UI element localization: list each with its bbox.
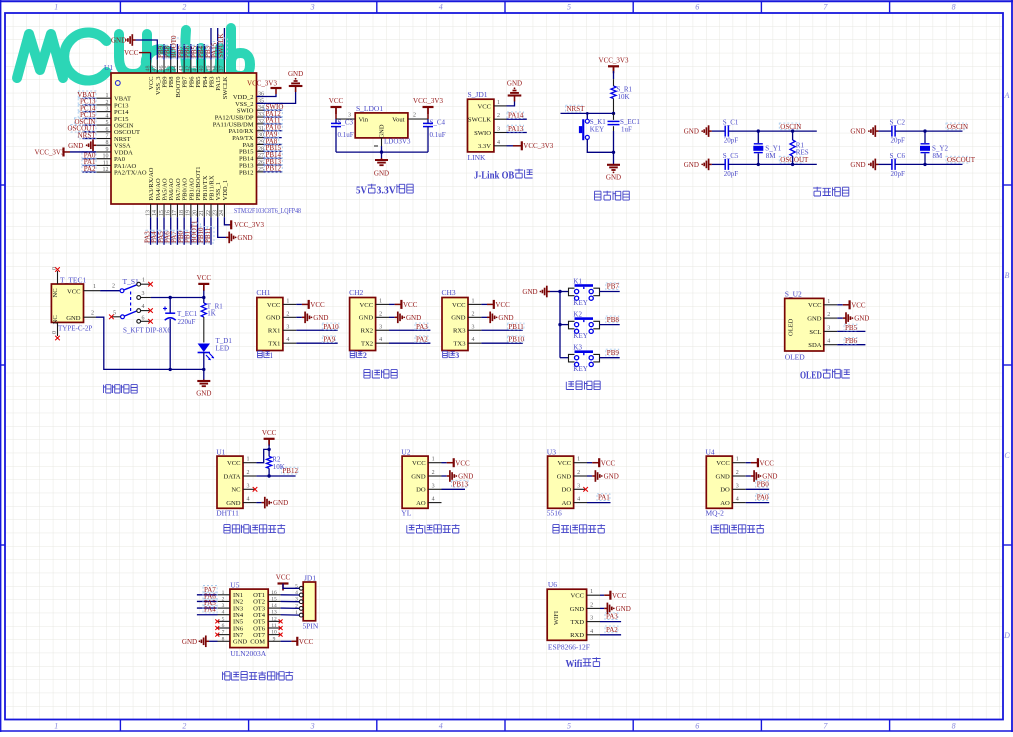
net label PA7 (203, 586, 217, 594)
svg-text:41: 41 (192, 66, 198, 72)
svg-text:2: 2 (182, 3, 186, 12)
resistor R2 10K pull-up (267, 456, 272, 468)
svg-text:48: 48 (145, 66, 151, 72)
junction (380, 150, 383, 153)
wire pin4 (507, 145, 514, 147)
svg-text:S_C5: S_C5 (723, 152, 739, 160)
ground (keys) (547, 291, 550, 293)
svg-text:GND: GND (379, 124, 386, 138)
svg-text:GND: GND (606, 174, 621, 182)
wire DHT11 VCC jog (256, 449, 269, 462)
svg-text:4: 4 (472, 337, 475, 343)
power port VCC (447, 462, 454, 464)
net label PA1 (597, 494, 610, 501)
net label PB7 (606, 283, 619, 290)
svg-text:GND: GND (684, 161, 699, 169)
svg-text:220uF: 220uF (178, 318, 196, 326)
svg-text:GND: GND (616, 605, 631, 613)
svg-text:5: 5 (567, 722, 571, 731)
net label PB9 (606, 349, 619, 356)
caption U1 (224, 525, 230, 534)
svg-text:GND: GND (359, 315, 374, 322)
switch throw 6 (no connect) (137, 319, 141, 323)
svg-text:VCC: VCC (267, 302, 281, 309)
regulator S_LDO1 body (355, 113, 408, 138)
wire VDD_1 to VCC_3V3 (224, 217, 229, 225)
net label PA10 (322, 323, 339, 330)
svg-text:3: 3 (590, 616, 593, 622)
svg-text:4: 4 (827, 339, 830, 345)
svg-text:3: 3 (247, 483, 250, 489)
wire pin2 (837, 317, 843, 319)
net label PA13 (507, 125, 524, 132)
svg-text:VCC_3V3: VCC_3V3 (35, 148, 65, 156)
switch pole 1 (120, 289, 124, 293)
junctions on bottom rail (169, 368, 172, 371)
svg-text:4: 4 (736, 497, 739, 503)
svg-text:1: 1 (577, 457, 580, 463)
wire PB0 (746, 488, 770, 490)
svg-text:K2: K2 (573, 310, 582, 318)
wire ground to rail (550, 291, 560, 293)
power port VCC (751, 462, 758, 464)
wire pin1 to switch (100, 290, 120, 292)
svg-text:PA1: PA1 (598, 494, 610, 502)
svg-text:SWCLK: SWCLK (222, 76, 229, 99)
svg-text:6: 6 (142, 316, 145, 322)
svg-text:5516: 5516 (547, 508, 562, 517)
svg-text:RES: RES (796, 149, 809, 157)
svg-text:GND: GND (406, 314, 421, 322)
svg-text:B: B (1005, 271, 1010, 280)
svg-text:4: 4 (142, 304, 145, 310)
svg-text:YL: YL (401, 508, 411, 517)
wire pin3 PA3 (600, 621, 621, 623)
net label PA5 (203, 599, 217, 607)
module U6 body ESP8266 (547, 589, 586, 640)
svg-text:14: 14 (271, 603, 277, 609)
svg-text:PB12: PB12 (266, 165, 282, 173)
wire pin1 (600, 594, 604, 596)
svg-text:19: 19 (186, 210, 192, 216)
svg-text:VDD_1: VDD_1 (222, 180, 229, 201)
power port VCC (OLED) (843, 304, 850, 306)
svg-text:TX3: TX3 (453, 341, 466, 348)
U1 body (111, 73, 257, 204)
svg-text:KEY: KEY (573, 332, 587, 340)
svg-text:GND: GND (854, 315, 869, 323)
svg-text:SCL: SCL (809, 329, 821, 336)
wire pin1 (389, 303, 395, 305)
wire (712, 130, 725, 132)
svg-text:VCC: VCC (299, 638, 314, 646)
wire key K1 output (600, 291, 620, 293)
svg-text:3: 3 (142, 291, 145, 297)
svg-text:PB9: PB9 (607, 349, 620, 357)
U6 pin stubs and numbers (587, 594, 600, 596)
svg-text:1: 1 (432, 457, 435, 463)
caption serial circuit (364, 370, 370, 379)
svg-text:VCC: VCC (310, 301, 325, 309)
svg-text:1: 1 (270, 351, 272, 360)
svg-text:PA13: PA13 (508, 125, 524, 133)
svg-text:Vin: Vin (359, 117, 369, 124)
svg-text:2: 2 (590, 602, 593, 608)
svg-text:GND: GND (451, 315, 466, 322)
connector CH2 body (350, 298, 376, 351)
svg-text:VCC: VCC (276, 574, 291, 582)
svg-text:K3: K3 (573, 344, 582, 352)
wire pin4 PA9 (296, 342, 337, 344)
U1 left net labels (78, 91, 96, 99)
caption U4 (711, 525, 719, 533)
wire PB13 (442, 488, 466, 490)
U1 bottom net labels (rotated) (146, 230, 154, 243)
svg-text:STM32F103C8T6_LQFP48: STM32F103C8T6_LQFP48 (234, 206, 301, 215)
wire pin2 to bottom rail (96, 317, 204, 369)
lead to LED (203, 317, 205, 343)
svg-text:1: 1 (93, 284, 96, 290)
svg-text:8: 8 (952, 3, 956, 12)
U4 pin stubs and numbers (732, 462, 745, 464)
U5 left pin stubs, numbers 1-8 (218, 594, 230, 596)
svg-text:S_KFT DIP-8X6: S_KFT DIP-8X6 (123, 327, 171, 335)
svg-text:33: 33 (258, 112, 264, 118)
power port VCC (487, 303, 494, 305)
ground (supply) (203, 380, 205, 382)
svg-text:4: 4 (439, 3, 443, 12)
svg-text:VCC: VCC (262, 429, 277, 437)
ground (wifi) (604, 607, 607, 609)
wires from U1 top pins (163, 44, 165, 60)
svg-text:OSCOUT: OSCOUT (780, 156, 809, 164)
switch throw 1 (no connect) (141, 283, 150, 285)
wire key K3 output (600, 357, 620, 359)
svg-text:15: 15 (271, 596, 277, 602)
wire VCC to JD1 pin5 (283, 584, 299, 589)
svg-text:3: 3 (310, 3, 315, 12)
svg-text:8M: 8M (766, 152, 777, 160)
wire VCC to Vin (335, 107, 337, 119)
wires from U1 bottom pins (150, 217, 152, 245)
connector JD1 body 5PIN (303, 582, 315, 621)
svg-text:2: 2 (472, 311, 475, 317)
S_LDO1 pin 2 (408, 118, 428, 120)
svg-text:14: 14 (152, 210, 158, 216)
net label PA3 (605, 613, 618, 620)
wire (613, 66, 615, 71)
wire key to ground rail (587, 139, 613, 152)
svg-text:4: 4 (379, 337, 382, 343)
svg-text:VCC: VCC (601, 459, 616, 467)
caption stepper motor (223, 672, 231, 680)
svg-text:OLED: OLED (788, 318, 795, 336)
svg-text:VCC: VCC (477, 103, 491, 110)
MCUclub logo (17, 28, 250, 81)
frame row ticks (0, 184, 5, 186)
svg-text:31: 31 (258, 126, 264, 132)
svg-text:39: 39 (206, 66, 212, 72)
svg-text:4: 4 (577, 497, 580, 503)
wire pin1 (481, 303, 487, 305)
S_LDO1 pin 3 (336, 118, 355, 120)
svg-text:3.3V: 3.3V (376, 185, 396, 197)
svg-text:GND: GND (374, 170, 389, 178)
wire (256, 502, 261, 504)
svg-text:5V: 5V (356, 185, 367, 197)
svg-text:VCC: VCC (570, 593, 584, 600)
svg-text:NRST: NRST (567, 105, 586, 113)
svg-text:38: 38 (213, 66, 219, 72)
svg-text:OLED: OLED (800, 370, 822, 382)
power port VCC (592, 462, 599, 464)
wire pin1 (837, 304, 843, 306)
svg-text:3: 3 (286, 324, 289, 330)
svg-text:GND: GND (850, 128, 865, 136)
svg-text:VCC: VCC (67, 288, 81, 295)
comment serial-2 (350, 351, 355, 358)
net label PA2 (415, 336, 428, 343)
svg-text:AO: AO (562, 500, 572, 507)
net label OSCIN (946, 123, 966, 130)
svg-text:PB11: PB11 (204, 227, 212, 243)
svg-text:PB8: PB8 (607, 316, 620, 324)
wire (746, 462, 751, 464)
wire pin1 (296, 303, 302, 305)
U1 bottom pin stubs (150, 204, 152, 217)
caption reset circuit (595, 191, 602, 200)
svg-text:DO: DO (562, 487, 572, 494)
svg-text:46: 46 (159, 66, 165, 72)
ground (447, 475, 450, 477)
svg-text:VCC: VCC (612, 592, 627, 600)
svg-text:43: 43 (179, 66, 185, 72)
svg-text:S_LDO1: S_LDO1 (356, 104, 383, 113)
svg-text:18: 18 (179, 210, 185, 216)
svg-text:T_TEC1: T_TEC1 (60, 276, 86, 285)
frame column ticks (119, 1, 121, 13)
svg-text:24: 24 (219, 210, 225, 216)
T_TEC1 top NC pin with no-connect (57, 271, 59, 284)
svg-text:VCC: VCC (403, 301, 418, 309)
svg-text:12: 12 (103, 167, 109, 173)
svg-text:PB10: PB10 (508, 336, 524, 344)
svg-text:PA10: PA10 (323, 323, 339, 331)
svg-text:1: 1 (142, 278, 145, 284)
svg-text:11: 11 (103, 160, 109, 166)
svg-text:1: 1 (827, 299, 830, 305)
wire VSS_2 to GND (257, 92, 296, 103)
wire pin3 PB5 (837, 330, 865, 332)
wire pin2 (389, 316, 395, 318)
svg-text:U6: U6 (548, 580, 557, 589)
wire pin3 PA13 (507, 132, 527, 134)
junction (612, 151, 615, 154)
net label PA2 (605, 626, 618, 633)
ground (crystal bottom) (875, 163, 878, 165)
wire (879, 130, 892, 132)
svg-text:20pF: 20pF (891, 170, 906, 178)
svg-text:7: 7 (222, 630, 225, 636)
svg-text:GND: GND (557, 473, 572, 480)
ground above J-Link (514, 96, 516, 102)
svg-text:4: 4 (247, 497, 250, 503)
junction (202, 296, 205, 299)
ground (487, 316, 490, 318)
svg-text:2: 2 (91, 311, 94, 317)
svg-text:3: 3 (827, 325, 830, 331)
svg-text:PB5: PB5 (845, 324, 858, 332)
svg-text:7: 7 (106, 134, 109, 140)
svg-text:PB12: PB12 (239, 169, 253, 176)
svg-text:9: 9 (106, 147, 109, 153)
LED T_D1 (198, 344, 210, 353)
svg-text:GND: GND (288, 70, 303, 78)
svg-text:13: 13 (271, 610, 277, 616)
caption key circuit (566, 382, 574, 390)
wire key K2 output (600, 324, 620, 326)
svg-text:SWCLK: SWCLK (468, 117, 491, 124)
svg-text:LINK: LINK (468, 153, 486, 162)
U1 right net labels (265, 103, 283, 111)
wire (587, 462, 592, 464)
svg-text:VCC: VCC (455, 459, 470, 467)
svg-text:U5: U5 (230, 580, 239, 589)
svg-text:1: 1 (590, 589, 593, 595)
svg-text:VCC: VCC (360, 302, 374, 309)
wires OT1-OT4 to JD1 (281, 594, 300, 596)
svg-text:2: 2 (247, 470, 250, 476)
svg-text:6: 6 (222, 623, 225, 629)
svg-text:12: 12 (271, 616, 277, 622)
svg-text:5: 5 (567, 3, 571, 12)
svg-text:2: 2 (432, 470, 435, 476)
svg-text:26: 26 (258, 160, 264, 166)
svg-text:PA3: PA3 (606, 613, 618, 621)
svg-text:1: 1 (736, 457, 739, 463)
wire VDD_2 to VCC_3V3 (257, 94, 277, 97)
svg-text:16: 16 (166, 210, 172, 216)
connector CH1 body (257, 298, 283, 351)
wire PB12 (256, 475, 295, 477)
svg-text:AO: AO (720, 500, 730, 507)
sensor U2 body YL (402, 456, 428, 508)
svg-text:1: 1 (54, 722, 58, 731)
svg-text:VCC: VCC (716, 460, 730, 467)
svg-text:GND: GND (66, 315, 81, 322)
svg-text:CH1: CH1 (256, 288, 270, 297)
resistor R1 RES (792, 131, 794, 140)
wire OSCOUT (728, 163, 816, 165)
net label PB6 (844, 337, 857, 344)
svg-text:GND: GND (266, 315, 281, 322)
wire R2 to DATA (268, 468, 270, 476)
switch throw 4 (no connect) (137, 309, 141, 313)
ground top right of U1 (295, 86, 297, 92)
svg-text:10K: 10K (273, 463, 285, 471)
key rail vertical wire (559, 292, 561, 358)
svg-text:DHT11: DHT11 (216, 508, 239, 517)
svg-text:SDA: SDA (808, 342, 821, 349)
svg-text:21: 21 (199, 210, 205, 216)
wire pin4 PB10 (481, 342, 522, 344)
wire COM to VCC (281, 640, 292, 642)
T_TEC1 pin 2 (84, 316, 97, 318)
power port VCC (395, 303, 402, 305)
svg-text:CH3: CH3 (442, 288, 456, 297)
svg-text:TX2: TX2 (361, 341, 373, 348)
U1 top net labels (rotated) (159, 45, 167, 58)
caption U2 (407, 525, 415, 533)
svg-text:3: 3 (432, 483, 435, 489)
wires PA7..PA4 to U5 inputs (197, 594, 218, 596)
net label PB8 (606, 316, 619, 323)
svg-text:2: 2 (112, 284, 115, 290)
svg-text:20: 20 (192, 210, 198, 216)
svg-text:VCC: VCC (760, 459, 775, 467)
CH1 pin stubs and numbers (283, 303, 296, 305)
wire throw3 to VCC node (151, 297, 204, 299)
wire to ground (613, 152, 615, 165)
svg-text:RX3: RX3 (453, 328, 466, 335)
svg-text:GND: GND (522, 288, 537, 296)
svg-text:37: 37 (219, 66, 225, 72)
svg-text:PB7: PB7 (607, 283, 620, 291)
svg-text:U1: U1 (104, 63, 113, 72)
wires to U1 left pins (83, 97, 97, 99)
ground (crystal bottom) (709, 163, 712, 165)
svg-text:2: 2 (577, 470, 580, 476)
S_LDO1 GND pin (381, 138, 383, 146)
svg-text:1: 1 (247, 457, 250, 463)
crystal S_Y1 8M (757, 131, 759, 143)
svg-text:U1: U1 (216, 447, 225, 456)
svg-text:ESP8266-12F: ESP8266-12F (548, 643, 590, 652)
svg-text:2: 2 (106, 100, 109, 106)
wire pin4 PB6 (837, 344, 865, 346)
S_JD1 pin stubs and numbers (494, 105, 507, 107)
svg-text:GND: GND (313, 314, 328, 322)
svg-text:44: 44 (172, 66, 178, 72)
wire (879, 163, 892, 165)
svg-text:3: 3 (472, 324, 475, 330)
svg-text:20pF: 20pF (724, 137, 739, 145)
svg-text:TXD: TXD (570, 619, 584, 626)
net label OSCIN (779, 123, 799, 130)
svg-text:AO: AO (416, 500, 426, 507)
svg-text:LDO3V3: LDO3V3 (384, 138, 411, 146)
svg-text:VCC: VCC (124, 49, 139, 57)
switch pole 2 (121, 315, 125, 319)
svg-text:GND: GND (273, 499, 288, 507)
wire to ground (203, 369, 205, 379)
svg-text:VCC: VCC (452, 302, 466, 309)
capacitor T_EC1 220uF (169, 298, 171, 313)
svg-text:2: 2 (363, 351, 367, 360)
svg-text:3: 3 (736, 483, 739, 489)
net label PB10 (507, 336, 524, 343)
svg-text:10: 10 (271, 630, 277, 636)
svg-text:A: A (1004, 91, 1010, 100)
svg-text:1: 1 (286, 298, 289, 304)
caption crystal circuit (813, 187, 821, 196)
svg-text:1: 1 (222, 590, 225, 596)
svg-text:U3: U3 (547, 447, 556, 456)
svg-text:VCC_3V3: VCC_3V3 (234, 221, 264, 229)
switch link dashed (130, 292, 132, 313)
svg-text:25: 25 (258, 167, 264, 173)
net label PA6 (203, 592, 217, 600)
